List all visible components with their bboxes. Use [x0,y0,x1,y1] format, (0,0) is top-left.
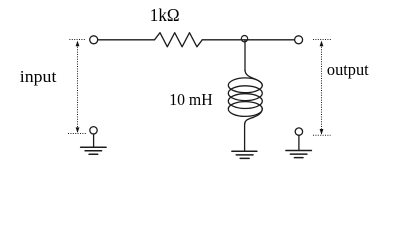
inductor L coil loop 4 [228,102,262,117]
input arrowhead down [76,127,80,133]
inductor L (10 mH) coil entry hook [245,70,262,85]
output dimension: top dotted tick [313,39,331,41]
ground (right, with open-circle terminal) [286,128,312,158]
output arrowhead down [320,129,324,135]
node: junction of resistor and inductor (small open circle) [241,36,247,42]
node: left input terminal (open circle) [90,36,98,44]
inductor L coil loop 1 [228,78,262,93]
svg-text:output: output [327,60,369,79]
inductor L coil loop 2 [228,86,262,101]
input dimension: top dotted tick [69,39,85,41]
inductor L coil exit hook [245,109,263,124]
node: right output terminal (open circle) [295,36,303,44]
ground (left, with open-circle terminal) [81,127,107,155]
input arrowhead up [76,41,80,47]
ground (middle, below inductor) [232,151,257,158]
svg-text:10 mH: 10 mH [169,90,212,109]
input dimension: vertical dotted line [77,42,79,133]
input dimension: bottom dotted tick [68,133,87,135]
wire: left terminal to resistor [98,39,154,41]
resistor R (1kΩ) zigzag [155,33,203,47]
svg-text:input: input [20,67,57,86]
svg-text:1kΩ: 1kΩ [150,5,180,25]
output dimension: bottom dotted tick [313,134,331,136]
wire: junction down to inductor [244,40,246,71]
inductor L coil loop 3 [228,94,262,109]
wire: inductor to middle ground [244,124,246,151]
output dimension: vertical dotted line [321,42,323,134]
output arrowhead up [320,41,324,47]
wire: resistor to right terminal through junction [202,39,294,41]
